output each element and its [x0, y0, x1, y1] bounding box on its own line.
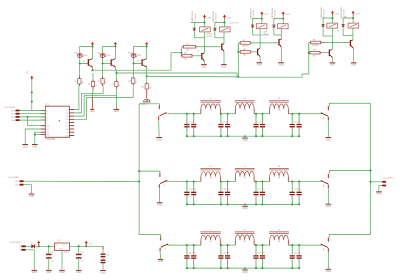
svg-text:10k: 10k — [243, 55, 246, 57]
svg-text:G5V-2: G5V-2 — [207, 36, 214, 38]
VCC +5V arrow power — [85, 241, 88, 246]
node C32 bottom — [298, 267, 300, 269]
VCC arrow LED cell 3 — [145, 42, 148, 47]
svg-text:1: 1 — [157, 107, 158, 109]
node C8 top — [298, 113, 300, 115]
capacitor C27 — [218, 245, 223, 268]
wire diode bottom K6 — [342, 27, 344, 36]
svg-text:+: + — [44, 252, 46, 254]
svg-text:2: 2 — [323, 118, 324, 120]
label 2N3904 pair2 — [261, 32, 269, 36]
node output bus row2 line — [369, 181, 371, 183]
svg-text:+5V: +5V — [89, 244, 93, 246]
svg-text:T3: T3 — [137, 61, 139, 63]
capacitor C15 — [101, 246, 109, 270]
svg-text:Q5: Q5 — [66, 126, 69, 128]
VCC +5V arrow — [30, 76, 33, 81]
wire R15 to IC pin — [74, 85, 133, 119]
VCC arrow K1 — [203, 15, 206, 20]
node T3 emitter — [146, 75, 148, 77]
wire R9 to Q6 base — [322, 42, 350, 44]
wire R5 to Q2 base — [197, 46, 221, 48]
svg-text:2: 2 — [323, 186, 324, 188]
svg-text:GND: GND — [326, 271, 331, 273]
relay arm S3-row3 — [161, 244, 168, 251]
svg-text:10k: 10k — [313, 55, 316, 57]
wire diode bottom K5 — [322, 27, 324, 36]
svg-text:2: 2 — [156, 118, 157, 120]
svg-text:uH: uH — [278, 241, 281, 243]
node C28 bottom — [227, 267, 229, 269]
svg-text:GND: GND — [242, 208, 247, 210]
wire X3 to D1 — [26, 245, 32, 247]
node C2 top — [193, 113, 195, 115]
wire jog row3 right — [329, 235, 370, 238]
svg-text:R7: R7 — [243, 40, 245, 42]
svg-text:GND: GND — [32, 146, 37, 148]
capacitor C14 — [46, 246, 52, 269]
cap pair label row2-0 — [188, 189, 195, 191]
svg-text:C14: C14 — [50, 252, 53, 254]
capacitor C19 — [218, 182, 223, 205]
svg-text:IC2: IC2 — [57, 240, 61, 242]
cap pair label row2-4 — [258, 189, 265, 191]
capacitor C29 — [253, 245, 258, 268]
node C27 bottom — [220, 267, 222, 269]
node C1 bottom — [186, 135, 188, 137]
node C6 bottom — [261, 135, 263, 137]
svg-text:GND: GND — [76, 272, 81, 274]
svg-text:JO-CN-BD1: JO-CN-BD1 — [4, 107, 16, 109]
node C28 top — [227, 244, 229, 246]
node C6 top — [261, 113, 263, 115]
svg-text:1: 1 — [158, 239, 159, 241]
node C5 bottom — [255, 135, 257, 137]
wire nested y95.7 — [74, 96, 116, 116]
svg-text:GND: GND — [114, 111, 119, 113]
wire line row2 a — [168, 181, 201, 183]
svg-text:L1: L1 — [209, 98, 212, 100]
base resistor R6 — [181, 55, 193, 58]
svg-text:1k: 1k — [105, 82, 107, 84]
node power b — [48, 245, 50, 247]
svg-text:CN2: CN2 — [15, 185, 19, 187]
relay arm S4-row1 — [321, 112, 328, 119]
svg-text:Q0: Q0 — [66, 110, 69, 112]
junction K1 top — [203, 21, 205, 23]
wire bus2 to R12 — [92, 73, 94, 80]
node C29 bottom — [255, 267, 257, 269]
T2 label — [106, 61, 108, 63]
+5V label power — [89, 244, 93, 246]
ground PWR2 — [46, 270, 52, 274]
resistor R15 — [132, 77, 135, 86]
svg-text:GND: GND — [376, 194, 381, 196]
svg-text:1k: 1k — [119, 85, 121, 87]
wire R13 to IC pin — [74, 86, 103, 113]
node T2 emitter — [115, 72, 117, 74]
ground PWR4 — [76, 270, 82, 274]
inductor L9 — [269, 232, 289, 245]
node C21 top — [255, 181, 257, 183]
node C24 top — [298, 181, 300, 183]
wire VCC to coil K3 — [261, 16, 263, 24]
svg-text:12V-RELAY: 12V-RELAY — [214, 12, 217, 22]
LED D2 — [100, 53, 106, 59]
+12V label K1 — [207, 17, 212, 19]
svg-text:CN4: CN4 — [11, 120, 15, 122]
relay K6 — [348, 23, 359, 28]
wire R6 to Q1 base — [193, 55, 201, 57]
svg-text:L6: L6 — [278, 166, 281, 168]
node C22 top — [261, 181, 263, 183]
svg-text:12V-RELAY: 12V-RELAY — [194, 12, 197, 22]
svg-text:10u: 10u — [80, 261, 83, 263]
svg-text:1k: 1k — [82, 82, 84, 84]
capacitor C25 — [184, 245, 189, 268]
svg-text:GND: GND — [158, 261, 163, 263]
svg-text:2N3904: 2N3904 — [242, 46, 249, 48]
svg-text:R5: R5 — [186, 44, 188, 46]
connector SV1 header text — [4, 107, 16, 109]
capacitor C21 — [253, 182, 258, 205]
contact 2 S2-row2 — [157, 184, 160, 188]
svg-text:GND: GND — [29, 196, 34, 198]
svg-text:Q3: Q3 — [66, 119, 69, 121]
capacitor C28 — [225, 245, 230, 268]
transistor T3 — [141, 59, 146, 68]
wire diode top K5 — [323, 18, 332, 24]
node C17 bottom — [186, 203, 188, 205]
svg-text:C13: C13 — [80, 252, 83, 254]
+12V label K5 — [335, 14, 340, 16]
wire feed pair1 — [171, 52, 181, 54]
svg-text:JO-CN-BD1: JO-CN-BD1 — [383, 177, 395, 179]
R9 labels — [312, 39, 319, 47]
wire X1-2 to gnd — [24, 185, 32, 194]
svg-text:R14: R14 — [112, 84, 115, 86]
svg-text:GND: GND — [23, 146, 28, 148]
wire diode bottom K3 — [252, 27, 254, 35]
svg-text:GND: GND — [351, 65, 356, 67]
svg-text:T1: T1 — [83, 61, 85, 63]
SV1 pad 1 — [11, 110, 20, 113]
svg-text:GND: GND — [278, 65, 283, 67]
svg-text:OE: OE — [46, 126, 49, 128]
svg-text:uH: uH — [278, 177, 281, 179]
wire diode top K6 — [343, 18, 353, 24]
cap pair label row3-0 — [188, 253, 195, 255]
wire R7 to Q4 base — [252, 42, 279, 44]
wire vcc corner cell 3 — [134, 47, 147, 59]
svg-text:CN3: CN3 — [11, 117, 15, 119]
svg-text:74HC595: 74HC595 — [45, 139, 55, 141]
node LED cathode 3 — [132, 62, 134, 64]
node C25 top — [186, 244, 188, 246]
capacitor C24 — [297, 182, 302, 205]
flyback diode D-K3 — [251, 25, 254, 27]
ground Q5 — [330, 62, 336, 66]
node C20 bottom — [227, 203, 229, 205]
wire Q6 emitter to gnd — [352, 48, 355, 62]
resistor R16 — [145, 83, 148, 91]
svg-text:10k: 10k — [186, 49, 189, 51]
capacitor C6 — [260, 114, 265, 136]
node +5V a — [31, 91, 33, 93]
R11 labels — [75, 81, 84, 84]
VCC arrow K3 — [260, 11, 263, 16]
svg-text:R12: R12 — [88, 84, 91, 86]
inductor L5 — [235, 168, 255, 181]
wire diode top K1 — [194, 23, 204, 28]
node C21 bottom — [255, 203, 257, 205]
wire gnd bus row1 — [187, 135, 299, 137]
node T1 emitter — [91, 69, 93, 71]
svg-text:GND: GND — [100, 272, 105, 274]
L9 label — [278, 230, 281, 243]
transistor Q1 — [201, 53, 204, 61]
L3 label — [278, 98, 281, 111]
svg-text:Q6: Q6 — [66, 129, 69, 131]
R10 labels — [313, 50, 317, 58]
contact 1 S4-row1 — [328, 106, 331, 110]
node C19 top — [220, 181, 222, 183]
LED label 3 — [128, 53, 141, 57]
X2 pad 2 — [382, 185, 386, 187]
svg-text:MR: MR — [46, 135, 50, 137]
VCC arrow K2 — [223, 15, 226, 20]
node gnd bus center row2 — [244, 204, 246, 206]
relay pair3 label — [337, 16, 347, 33]
wire T1 emitter down — [92, 67, 94, 70]
cap pair label row1-0 — [188, 121, 193, 123]
R7 labels — [242, 40, 249, 48]
ground S3-row3 — [158, 259, 164, 263]
VCC arrow K5 — [331, 11, 334, 16]
svg-text:L4: L4 — [209, 166, 212, 168]
node C27 top — [220, 244, 222, 246]
svg-text:GND: GND — [326, 139, 331, 141]
L8 label — [244, 230, 247, 243]
wire VCC to coil K6 — [352, 15, 354, 23]
svg-text:GND: GND — [326, 206, 331, 208]
relay mid label — [229, 22, 239, 24]
wire line row3 d — [288, 244, 321, 246]
node LED cell 3 — [146, 45, 148, 47]
svg-text:12V-RELAY: 12V-RELAY — [273, 9, 276, 19]
svg-text:Q1: Q1 — [66, 113, 69, 115]
svg-text:1k: 1k — [135, 81, 137, 83]
cap pair label row2-6 — [294, 189, 301, 191]
wire jog row2 right — [329, 171, 370, 174]
node C29 top — [255, 244, 257, 246]
node power d — [85, 245, 87, 247]
junction K6 top — [352, 17, 354, 19]
svg-text:+5V: +5V — [27, 70, 29, 74]
part number text K1 — [192, 10, 197, 22]
wire bus to R16 — [146, 76, 148, 82]
wire LED to base 1 — [80, 58, 88, 64]
wire vcc corner cell 1 — [80, 47, 93, 59]
L7 label — [209, 230, 212, 243]
svg-text:1k: 1k — [95, 85, 97, 87]
VCC +12V arrow power — [37, 241, 40, 246]
wire SV1-1 to IC — [20, 110, 46, 112]
svg-text:uH: uH — [209, 110, 212, 112]
svg-text:2N3904: 2N3904 — [312, 45, 319, 47]
connector X1 header — [8, 177, 20, 179]
wire line row1 d — [288, 113, 321, 115]
cap pair label row2-2 — [222, 189, 229, 191]
VCC arrow K6 — [352, 11, 355, 16]
node C5 top — [255, 113, 257, 115]
R13 labels — [98, 81, 107, 84]
wire line row1 c — [254, 113, 270, 115]
cap pair label row3-2 — [222, 253, 229, 255]
R12 labels — [88, 84, 97, 87]
wire VCC to coil K4 — [282, 16, 284, 24]
wire LED3 chain to R15 — [132, 64, 134, 77]
wire ic pin 129 gnd — [25, 129, 40, 144]
svg-text:C15: C15 — [106, 255, 109, 257]
svg-text:CN1: CN1 — [15, 181, 19, 183]
wire diode top K4 — [274, 19, 283, 25]
IC1 name — [45, 105, 49, 107]
resistor R13 — [101, 77, 104, 87]
node input bus row2 line — [138, 181, 140, 183]
wire contact2 gnd S3-row3 — [159, 251, 161, 258]
svg-text:2: 2 — [157, 186, 158, 188]
wire VCC to coil K1 — [204, 19, 206, 27]
capacitor C5 — [253, 114, 258, 136]
svg-text:+12V: +12V — [355, 14, 360, 16]
transistor Q5 — [329, 49, 333, 57]
wire bus to X2 — [370, 181, 382, 183]
svg-text:B: B — [46, 114, 48, 116]
base resistor R9 — [310, 41, 323, 44]
R6 labels — [184, 53, 187, 61]
node power c — [78, 245, 80, 247]
wire gnd bus row3 — [187, 267, 299, 269]
IC IC1 box — [45, 106, 69, 137]
capacitor C13 — [76, 246, 82, 269]
ground Q4 — [278, 62, 284, 66]
svg-text:+12V: +12V — [207, 17, 212, 19]
wire coil K1 to Q1 — [191, 23, 205, 53]
ground S1-row1 — [156, 137, 162, 141]
inductor L3 — [269, 101, 289, 114]
wire SV1-4 to IC — [20, 119, 46, 121]
inductor L2 — [235, 101, 255, 114]
capacitor C3 — [218, 114, 223, 136]
wire R11 to IC pin — [74, 86, 79, 110]
solder jumper SJ1 — [143, 99, 150, 102]
svg-text:L7: L7 — [209, 230, 212, 232]
wire coil K2 to Q2 — [215, 32, 224, 44]
capacitor C8 — [297, 114, 302, 136]
ground center row3 — [242, 268, 248, 274]
node C31 top — [291, 244, 293, 246]
relay K3 — [256, 24, 267, 29]
IC1 right pins — [69, 110, 74, 136]
pin R16 bottom — [146, 90, 148, 99]
node +5V b — [31, 100, 33, 102]
wire line row3 b — [220, 244, 235, 246]
R8 labels — [243, 49, 246, 57]
svg-text:L8: L8 — [244, 230, 247, 232]
resistor R11 — [78, 77, 81, 87]
wire coil K4 to Q4 — [274, 29, 281, 39]
LED label 1 — [74, 53, 87, 57]
svg-text:R15: R15 — [128, 81, 131, 83]
+12V label K4 — [285, 14, 290, 16]
capacitor C23 — [290, 182, 295, 205]
contact 2 S1-row1 — [156, 116, 159, 120]
wire reg out — [70, 245, 104, 247]
junction K3 top — [261, 17, 263, 19]
svg-text:uH: uH — [209, 241, 212, 243]
svg-text:10u: 10u — [50, 261, 53, 263]
node pair1 feed — [180, 47, 182, 56]
IC1 value — [45, 139, 55, 141]
wire contact2 gnd S2-row2 — [158, 188, 160, 202]
svg-text:10k: 10k — [184, 58, 187, 60]
svg-text:C19 C20: C19 C20 — [222, 189, 229, 191]
svg-text:CN2: CN2 — [11, 114, 15, 116]
svg-text:S: S — [163, 117, 165, 119]
svg-text:uH: uH — [244, 177, 247, 179]
wire vcc power stem — [38, 244, 40, 247]
X1 pad 1 — [15, 180, 24, 183]
wire diode top K2 — [215, 23, 225, 28]
wire bus to row3 — [139, 235, 161, 239]
wire line row3 c — [254, 244, 270, 246]
ground S4-row1 — [326, 137, 332, 141]
wire Q1 emitter to gnd — [203, 61, 205, 64]
node bus3 — [237, 76, 239, 78]
Q1 label — [197, 51, 199, 53]
L5 label — [244, 166, 247, 179]
node C26 top — [193, 244, 195, 246]
svg-text:uH: uH — [244, 110, 247, 112]
svg-text:R6: R6 — [184, 53, 186, 55]
node C1 top — [186, 113, 188, 115]
wire line row1 a — [168, 113, 201, 115]
node C2 bottom — [193, 135, 195, 137]
cap pair label row1-2 — [222, 121, 227, 123]
relay K5 — [327, 23, 338, 28]
wire contact2 gnd S6-row3 — [327, 252, 329, 269]
connector X3 header — [10, 242, 21, 244]
svg-text:D1: D1 — [31, 242, 33, 244]
wire coil K5 to Q5 — [323, 28, 332, 49]
relay arm S6-row3 — [321, 244, 328, 251]
contact 1 S3-row3 — [158, 237, 161, 241]
node input bus row2 jog — [138, 170, 140, 172]
bus wire y76 — [147, 75, 239, 78]
inductor L4 — [200, 168, 220, 181]
svg-text:C29 C30: C29 C30 — [258, 253, 265, 255]
L2 label — [244, 98, 247, 111]
svg-text:GND: GND — [46, 272, 51, 274]
svg-text:12V-RELAY: 12V-RELAY — [323, 9, 326, 19]
contact 2 S6-row3 — [323, 248, 328, 252]
ground Q1 — [201, 64, 207, 68]
svg-text:445: 445 — [107, 55, 110, 57]
wire vcc corner cell 2 — [103, 47, 116, 59]
svg-text:C3 C4: C3 C4 — [222, 121, 227, 123]
contact 1 S6-row3 — [328, 238, 331, 242]
